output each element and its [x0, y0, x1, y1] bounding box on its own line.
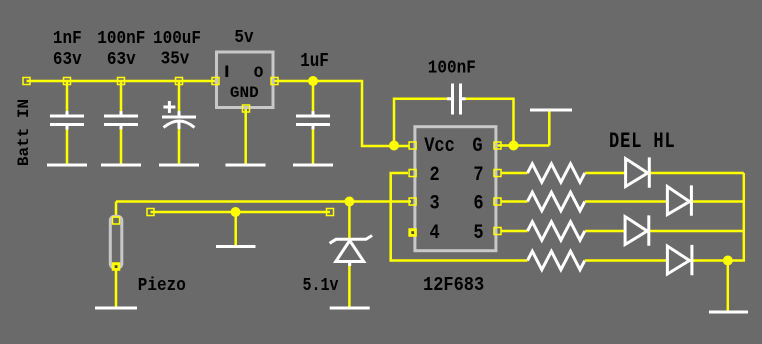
- wire IC pin6 row: [501, 200, 744, 203]
- terminal IC pin6: [494, 198, 501, 205]
- capacitor 1uF: [296, 111, 330, 130]
- wire lower middle header: [151, 212, 331, 247]
- ground under header wire: [216, 245, 256, 248]
- terminal IC pin7: [494, 170, 501, 177]
- zener diode 5.1v: [336, 241, 364, 267]
- ground under regulator: [226, 164, 266, 167]
- capacitor C2 100nF: [104, 111, 138, 130]
- svg-text:2: 2: [429, 164, 439, 187]
- svg-text:G: G: [472, 135, 482, 158]
- terminal IC pin5: [494, 228, 501, 235]
- terminal IC pin3: [409, 198, 416, 205]
- wire common node to ground: [727, 261, 730, 313]
- svg-text:1uF: 1uF: [300, 51, 329, 73]
- junction LED common node: [723, 256, 733, 266]
- wire regulator O pin to IC Vcc pin: [275, 81, 410, 146]
- wire right cathode bus: [728, 173, 744, 261]
- terminal node C3: [176, 78, 183, 85]
- piezo box: [110, 216, 122, 267]
- plus sign of C3: [163, 101, 175, 113]
- wire IC pin5 row: [501, 230, 744, 233]
- resistor R2: [528, 192, 585, 210]
- wire IC pin7 row: [501, 172, 744, 175]
- zener cathode bar: [330, 236, 373, 244]
- terminal IC G pin: [494, 142, 501, 149]
- terminal regulator I pin: [212, 78, 219, 85]
- svg-text:GND: GND: [230, 84, 259, 102]
- svg-text:1nF: 1nF: [53, 29, 82, 49]
- piezo bottom terminal center dot: [115, 265, 118, 268]
- wire main rail Batt IN to regulator I pin: [27, 80, 217, 83]
- wire row4 after resistor: [585, 259, 728, 262]
- svg-text:4: 4: [429, 222, 439, 245]
- svg-text:Piezo: Piezo: [138, 276, 186, 296]
- LED D1: [626, 157, 650, 187]
- label I pin (plain bar): [225, 66, 228, 78]
- svg-text:35v: 35v: [161, 50, 190, 70]
- terminal Batt IN: [23, 78, 30, 85]
- junction G node: [509, 141, 519, 151]
- terminal IC pin2: [409, 170, 416, 177]
- svg-text:6: 6: [473, 192, 483, 215]
- svg-text:100uF: 100uF: [153, 29, 201, 49]
- ground above G pin wire: [530, 109, 572, 112]
- wire capacitor C1 lead: [66, 81, 69, 165]
- svg-text:100nF: 100nF: [97, 29, 145, 49]
- capacitor 100nF bypass (horizontal): [447, 84, 466, 115]
- terminal node C2: [118, 78, 125, 85]
- regulator U1 box: [217, 52, 274, 108]
- ground under C1: [47, 164, 87, 167]
- LED D2: [667, 185, 691, 215]
- resistor R4: [528, 251, 585, 269]
- wire zener lead: [348, 202, 351, 309]
- resistor R1: [528, 164, 585, 182]
- terminal piezo top: [113, 217, 120, 224]
- terminal regulator O pin: [271, 78, 278, 85]
- pin4 center dot: [411, 231, 414, 234]
- ground under C3: [159, 164, 199, 167]
- capacitor C3 100uF electrolytic: [162, 111, 196, 129]
- wire 100nF right plate to G node: [461, 99, 514, 146]
- junction zener node: [344, 197, 354, 207]
- IC U2 12F683 box: [415, 127, 496, 251]
- ground under piezo: [95, 307, 137, 310]
- wire 1uF cap lead: [312, 81, 315, 165]
- junction 1uF node: [308, 76, 318, 86]
- terminal piezo bottom: [113, 263, 120, 270]
- wire piezo bottom to ground: [115, 267, 118, 308]
- svg-text:63v: 63v: [107, 50, 136, 70]
- wire piezo net to IC pin3: [116, 202, 411, 217]
- terminal regulator GND pin: [243, 105, 250, 112]
- LED D4: [667, 245, 692, 275]
- wire G pin to ground: [498, 110, 550, 146]
- terminal header right: [327, 209, 334, 216]
- wire capacitor C2 lead: [120, 81, 123, 165]
- svg-text:O: O: [254, 64, 264, 82]
- terminal IC pin4: [409, 229, 416, 236]
- svg-text:7: 7: [473, 164, 483, 187]
- junction Vcc node: [389, 141, 399, 151]
- capacitor C1 1nF: [50, 111, 84, 130]
- wire regulator GND lead: [244, 109, 247, 166]
- terminal node C1: [64, 78, 71, 85]
- svg-text:12F683: 12F683: [423, 275, 484, 296]
- terminal header left: [147, 209, 154, 216]
- svg-text:3: 3: [429, 192, 439, 215]
- svg-text:5.1v: 5.1v: [303, 276, 339, 297]
- wire Vcc node to 100nF left plate: [394, 99, 448, 146]
- svg-text:100nF: 100nF: [428, 59, 476, 79]
- junction header ground node: [231, 207, 241, 217]
- svg-text:Vcc: Vcc: [424, 135, 455, 158]
- svg-text:5: 5: [473, 222, 483, 245]
- terminal IC Vcc pin: [409, 142, 416, 149]
- wire IC pin2 to row4 resistor: [391, 173, 528, 261]
- wire capacitor C3 lead: [178, 81, 181, 165]
- ground under zener: [330, 307, 370, 310]
- svg-text:63v: 63v: [53, 50, 82, 70]
- ground bottom right: [709, 311, 748, 314]
- ground under C2: [101, 164, 141, 167]
- resistor R3: [528, 222, 585, 240]
- ground under 1uF: [293, 164, 333, 167]
- svg-text:DEL HL: DEL HL: [609, 129, 676, 155]
- svg-text:5v: 5v: [234, 28, 254, 48]
- svg-text:Batt IN: Batt IN: [15, 99, 33, 166]
- LED D3: [625, 215, 649, 245]
